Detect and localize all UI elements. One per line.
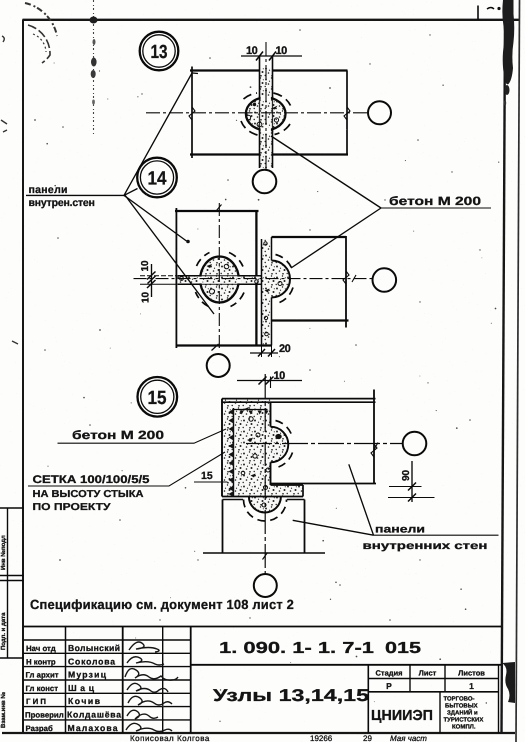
top-left panel right edge — [255, 211, 257, 276]
axis circle right of node 14 — [373, 268, 397, 292]
vertical axis node 15 — [264, 374, 266, 574]
stamp arcs top-left — [25, 3, 57, 36]
dim 90 right: dim line — [411, 461, 413, 502]
break on horizontal axis — [374, 443, 379, 451]
left core circle — [200, 257, 239, 303]
right edge dark smudge at titleblock — [502, 662, 515, 703]
dashed arcs right core — [276, 421, 292, 435]
leader B to circle 14 — [124, 189, 138, 196]
leader from beton label to node14 right core — [291, 208, 381, 268]
right core semicircle — [272, 261, 291, 298]
node 13 panel right edge — [346, 71, 348, 155]
dim 15 line — [194, 481, 228, 483]
ext line top dim — [270, 377, 272, 389]
dim tick right — [269, 52, 276, 61]
horizontal axis node 15 — [246, 443, 403, 445]
bottom edge left panels — [176, 344, 271, 346]
underline of label — [26, 194, 124, 196]
right panel top edge — [272, 236, 347, 238]
node 14 left core fill — [201, 257, 239, 302]
core circle U13 — [246, 98, 286, 131]
ext line bottom — [140, 283, 177, 285]
concrete left edge — [221, 399, 223, 497]
paper edge right — [516, 0, 520, 742]
top-left panel top edge — [175, 210, 259, 212]
node 14 right core fill — [272, 261, 291, 298]
node 13 panel left edge — [191, 67, 193, 159]
left margin marks — [1, 36, 7, 132]
bottom panel left edge — [222, 500, 224, 554]
axis circle below node 13 — [253, 170, 277, 194]
big cell divider — [191, 664, 501, 666]
right core semicircle — [271, 427, 289, 463]
right panel bottom edge — [272, 319, 349, 321]
dim 20 line — [250, 352, 278, 354]
node 14 vertical joint stipple — [262, 239, 272, 345]
break on vertical axis — [263, 553, 268, 560]
bottom core semicircle — [249, 497, 281, 513]
ext lines 90 — [388, 487, 435, 498]
leader from joint to beton label — [271, 136, 381, 208]
vertical joint left line — [261, 239, 263, 346]
vertical axis node 14 — [218, 203, 220, 351]
node 15 bottom core fill — [249, 497, 281, 513]
detail circle 15 — [138, 377, 178, 417]
leader to right panel — [349, 464, 374, 535]
aggregate marks in core — [246, 115, 250, 119]
break on vertical axis — [217, 205, 222, 211]
axis circle right of node 13 — [368, 101, 391, 124]
aggregate marks in concrete — [249, 417, 253, 421]
vertical joint right line — [271, 237, 273, 346]
top right small box — [477, 6, 479, 20]
right edge dark band top — [502, 0, 514, 84]
dim line 10/10 left — [151, 264, 153, 297]
aggregate marks left core — [224, 264, 229, 269]
vertical axis node 13 — [265, 42, 267, 169]
dim ticks left — [147, 272, 156, 289]
ticks 90 — [408, 483, 416, 502]
concrete inner right edge — [270, 402, 272, 485]
node 13 core concrete fill — [246, 98, 285, 130]
dim 20 ticks — [258, 349, 275, 357]
border left — [22, 20, 24, 734]
joint passes through core — [261, 96, 271, 100]
detail circle 13 — [140, 32, 179, 71]
horizontal axis node 13 — [146, 112, 368, 114]
dimension line 10|10 top — [241, 55, 302, 57]
margin mini table — [7, 508, 9, 658]
joint strip left line — [259, 56, 261, 168]
leader D to core lower-left — [125, 195, 215, 315]
mesh top line with teeth — [234, 409, 268, 411]
leader C into top-left panel — [124, 195, 187, 241]
bottom panel top edge — [223, 499, 305, 501]
axis circle right of node 15 — [403, 432, 427, 456]
bottom panel bottom edge — [203, 552, 325, 554]
scattered specks — [34, 29, 481, 621]
right panel bottom edge — [271, 483, 377, 485]
horizontal joint top line — [178, 275, 263, 277]
stadia box lines — [367, 665, 369, 733]
dashed arc bottom core — [244, 500, 287, 522]
break mark right panel edge — [343, 271, 349, 284]
aggregate marks right core — [278, 282, 282, 286]
detail circle 14 — [137, 158, 177, 198]
break mark right edge — [344, 107, 350, 120]
dashed arcs around left core — [197, 253, 210, 267]
dashed ring arcs around core — [244, 93, 258, 99]
concrete step top — [271, 484, 304, 486]
break on horizontal axis — [352, 275, 356, 282]
break mark left edge — [189, 107, 195, 120]
dashed arc right core — [276, 255, 293, 270]
right panel right edge — [373, 390, 375, 484]
bottom-left panel right edge — [255, 284, 257, 345]
personnel row lines — [24, 639, 191, 641]
dim tick left — [256, 52, 263, 61]
leader A to node13 corner — [124, 73, 198, 195]
border top — [23, 19, 521, 21]
horizontal axis node 14 — [134, 278, 373, 280]
dim 20 bottom: ext lines — [262, 346, 272, 358]
joint passes through core — [198, 277, 203, 284]
break at bottom axis crossing — [212, 344, 219, 351]
concrete step right — [302, 485, 304, 497]
right panel right edge — [345, 236, 347, 328]
border right — [502, 20, 506, 733]
node 13 panel bottom edge — [190, 153, 348, 155]
dim 10 top: line — [237, 380, 302, 382]
ext line top — [140, 275, 177, 277]
break mark right panel — [371, 444, 377, 457]
concrete bottom edge — [222, 496, 303, 498]
axis circle below node 15 — [254, 574, 277, 597]
dim 10 tick — [259, 377, 274, 385]
signatures (cursive squiggles) — [125, 642, 178, 732]
table top line — [24, 626, 502, 628]
node 13 panel top edge — [190, 69, 348, 71]
joint strip right line — [272, 56, 274, 168]
mesh sawtooth left — [233, 408, 235, 496]
top edge double line — [222, 398, 376, 400]
node 15 concrete L fill — [222, 399, 303, 497]
fold mark vertical smudge — [93, 0, 95, 134]
border bottom — [2, 732, 515, 734]
horizontal joint bottom line — [178, 283, 263, 285]
leader to bottom panel — [293, 520, 374, 535]
personnel column lines — [65, 627, 67, 734]
axis circle below node 14 — [207, 354, 230, 377]
node 13 joint stipple fill — [260, 68, 272, 168]
bottom panel right edge — [304, 500, 306, 554]
left panel left edge — [175, 208, 177, 348]
node 14 horizontal joint stipple — [178, 276, 262, 285]
